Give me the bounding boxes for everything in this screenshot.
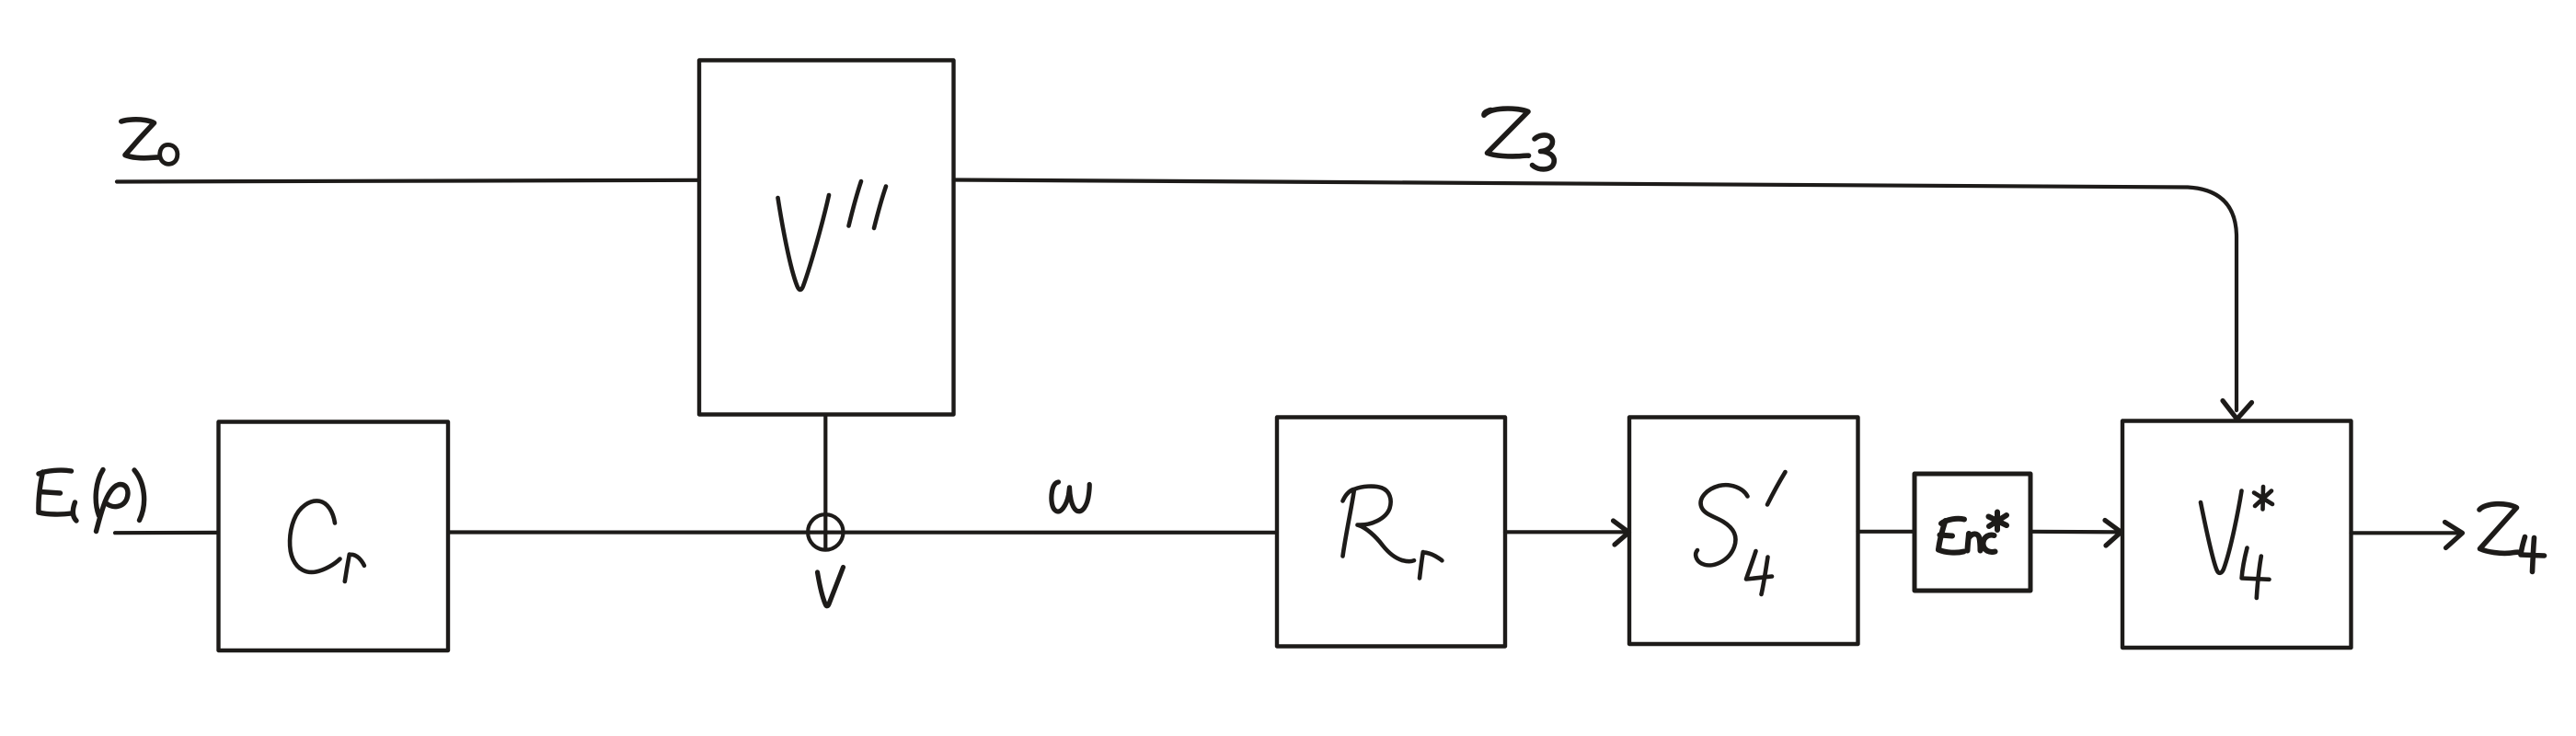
label E1(rho) input [39, 470, 144, 532]
wire Z3 (top horizontal from V'' curving down to V4*) [954, 180, 2237, 411]
box Cr [219, 422, 449, 651]
wire S4' to Enc* [1858, 530, 1915, 534]
label w [1052, 482, 1089, 512]
label v [818, 568, 844, 606]
label Z4 [2479, 504, 2545, 572]
arrowhead into V4* top [2223, 401, 2252, 420]
box S4' [1629, 418, 1858, 645]
wire E1 input into Cr [115, 531, 218, 535]
box V'' [699, 61, 954, 415]
arrow Enc* to V4* [2030, 530, 2116, 535]
label Rr [1343, 487, 1443, 579]
arrow V4* to Z4 output [2352, 531, 2459, 535]
label V'' [778, 181, 887, 290]
box Rr [1277, 418, 1505, 647]
label Z3 [1484, 109, 1554, 169]
label Z0 [121, 120, 178, 165]
label S4' [1696, 472, 1785, 594]
xor node v (circle plus) [808, 514, 843, 549]
box Enc* [1915, 474, 2030, 591]
label V4* [2201, 487, 2272, 598]
box V4* [2122, 421, 2352, 649]
label Enc* [1938, 512, 2007, 553]
wire Z0 (top-left horizontal into V'') [117, 180, 699, 182]
wire V'' down into xor [823, 415, 827, 549]
label Cr [290, 501, 364, 581]
arrow Rr to S4' [1505, 530, 1624, 534]
wire Cr to xor to Rr (w wire) [449, 530, 1278, 534]
